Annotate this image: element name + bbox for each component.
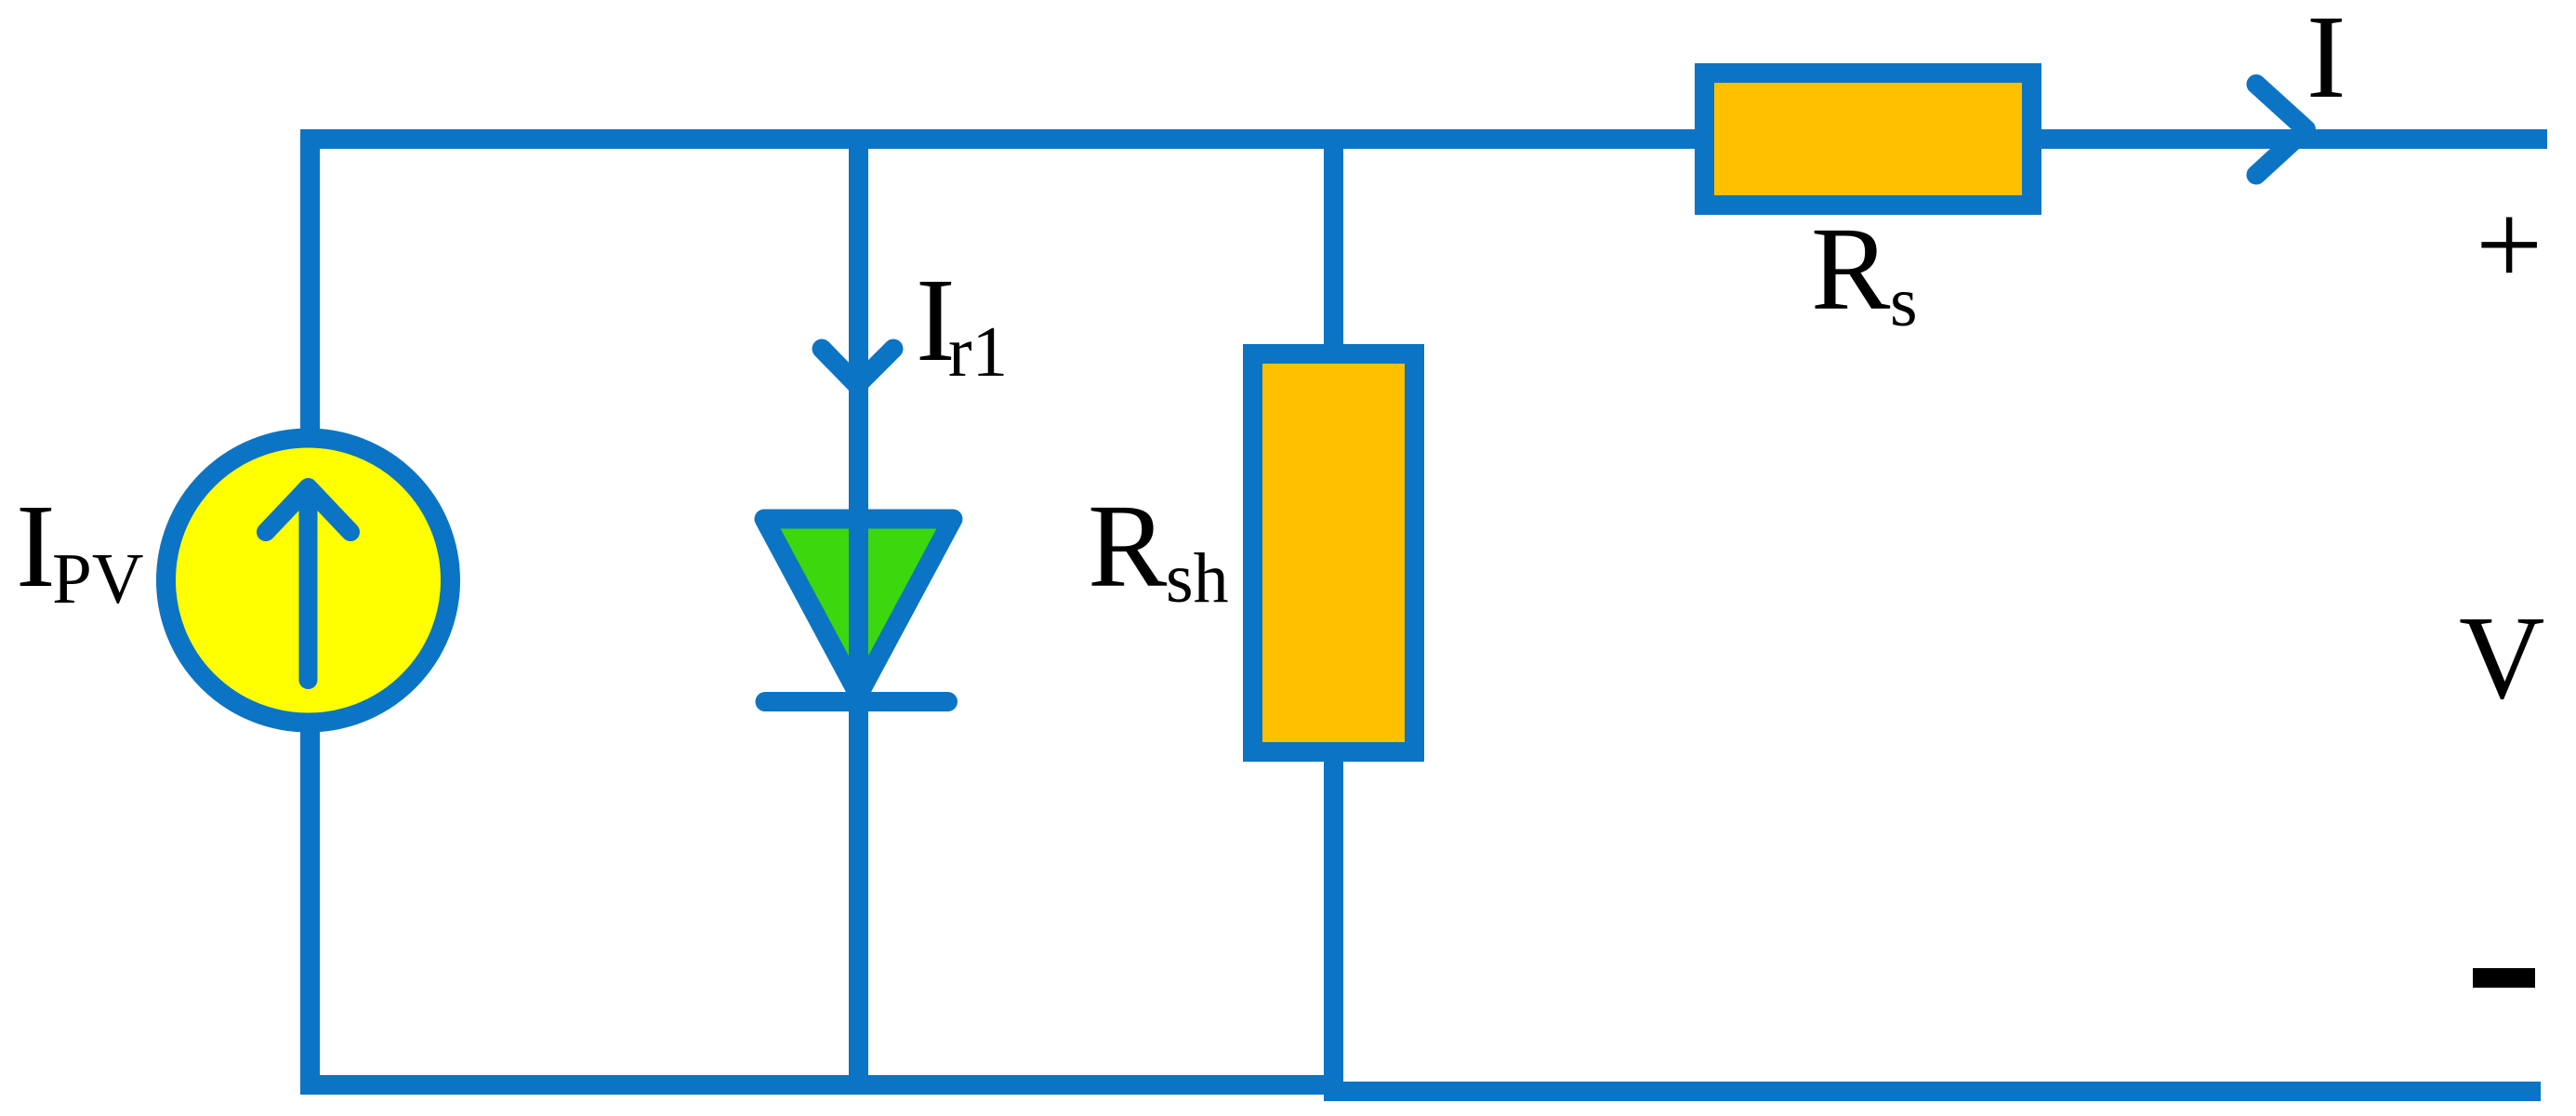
- wire: left branch (top-left corner, top rail to R_s): [310, 139, 1696, 434]
- label - (negative terminal): [2473, 968, 2535, 988]
- svg-text:r1: r1: [948, 312, 1008, 392]
- wire: top rail from R_s to output end: [2041, 129, 2547, 149]
- output current arrowhead: [2256, 85, 2306, 176]
- current arrow on diode branch (I_r1 direction): [822, 349, 893, 385]
- label R_s: [1811, 203, 1918, 341]
- resistor R_s (horizontal): [1705, 73, 2032, 206]
- diode D1 (triangle + cathode bar): [764, 519, 953, 695]
- wire: bottom rail right segment: [1324, 1082, 2541, 1101]
- label I_r1: [916, 254, 1008, 392]
- svg-text:s: s: [1890, 263, 1918, 341]
- resistor R_sh (vertical): [1253, 354, 1415, 752]
- svg-text:I: I: [2306, 0, 2346, 123]
- svg-text:I: I: [16, 480, 56, 612]
- svg-text:sh: sh: [1166, 539, 1229, 618]
- svg-text:PV: PV: [52, 538, 143, 618]
- wire: R_sh branch lower: [1324, 751, 1343, 1097]
- label R_sh: [1088, 480, 1229, 618]
- svg-text:+: +: [2476, 179, 2543, 311]
- svg-text:V: V: [2459, 591, 2544, 724]
- label I_PV: [16, 480, 143, 618]
- current source I_PV (circle): [166, 438, 451, 723]
- svg-text:R: R: [1811, 203, 1891, 335]
- wire: R_sh branch upper: [1324, 139, 1343, 354]
- wire: diode branch overlay through triangle: [849, 502, 868, 716]
- svg-text:R: R: [1088, 480, 1168, 612]
- diode cathode bar: [765, 692, 948, 711]
- wire: diode branch vertical: [849, 139, 868, 1095]
- wire: left branch bottom + bottom rail left segment: [310, 727, 1344, 1085]
